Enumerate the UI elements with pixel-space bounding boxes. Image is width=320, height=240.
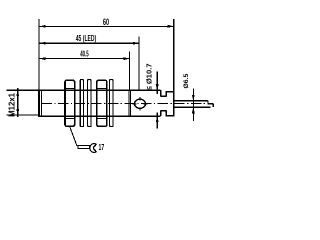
step down to neck <box>160 90 162 96</box>
washer 1 <box>80 80 83 127</box>
svg-text:17: 17 <box>99 143 105 153</box>
centerline of sensor body <box>41 103 213 105</box>
barrel top edge <box>38 89 161 91</box>
wire extension line for 45 LED dim <box>138 37 140 91</box>
svg-text:≤ Ø10.7: ≤ Ø10.7 <box>144 63 153 90</box>
barrel bottom edge <box>38 115 161 117</box>
wire extension line right for 60 dim <box>173 19 175 91</box>
dimension 40.5 thread length <box>40 50 130 60</box>
washer 2 <box>88 80 91 127</box>
svg-text:45 (LED): 45 (LED) <box>76 35 97 44</box>
neck top and bottom <box>161 95 167 97</box>
wrench leader line from nut <box>70 127 77 146</box>
joint double line between nut zone and housing <box>128 90 130 116</box>
dimension cable diameter <box>183 74 195 121</box>
wire extension line for 40.5 dim <box>129 52 131 90</box>
dimension M12x1 thread diameter <box>7 88 39 117</box>
dimension 60 overall length <box>40 17 174 28</box>
wrench icon SW 17 <box>78 143 104 153</box>
hex nut 1 <box>65 80 75 126</box>
wire extension line left at sensing face <box>38 19 40 89</box>
cable top edge <box>175 100 208 102</box>
svg-text:M12x1: M12x1 <box>7 92 16 117</box>
cable bottom edge <box>175 106 211 108</box>
dimension 45 (LED) <box>40 35 139 45</box>
svg-text:60: 60 <box>103 17 109 28</box>
svg-text:Ø6.5: Ø6.5 <box>183 74 190 89</box>
cable break symbol <box>208 101 213 108</box>
dimension housing diameter <= O10.7 <box>144 63 158 128</box>
washer 3 <box>110 80 113 127</box>
sensing face double line <box>38 89 40 117</box>
connector box <box>166 92 174 116</box>
hex nut 2 <box>97 80 107 126</box>
LED window oval <box>133 97 148 110</box>
svg-text:40.5: 40.5 <box>80 50 89 59</box>
